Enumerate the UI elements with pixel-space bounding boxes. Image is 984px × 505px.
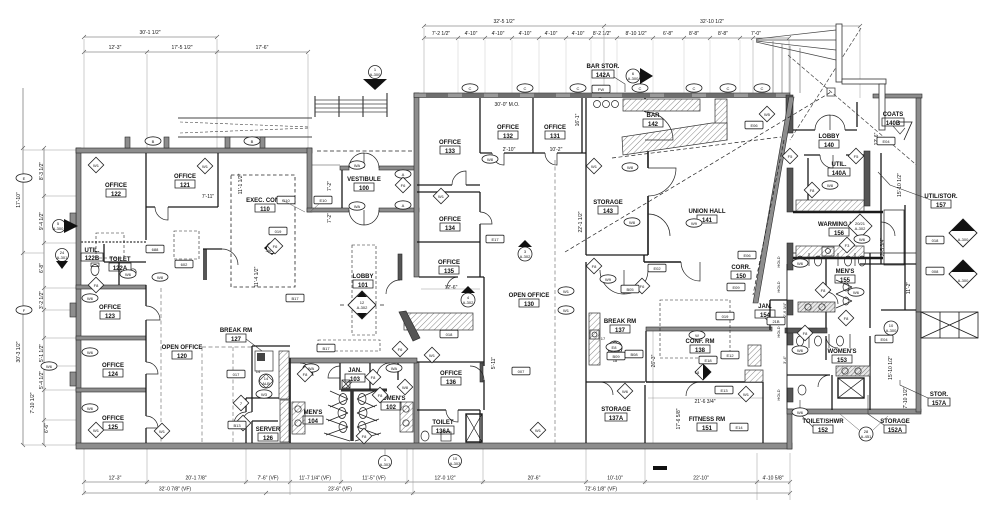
svg-text:MEN'S: MEN'S	[304, 410, 323, 416]
svg-text:W1: W1	[429, 353, 436, 358]
svg-text:OFFICE: OFFICE	[102, 416, 124, 422]
warming kit counter north	[796, 200, 864, 211]
svg-text:W6: W6	[859, 237, 866, 242]
room stor157A	[928, 392, 950, 407]
svg-text:OFFICE: OFFICE	[544, 125, 566, 131]
canopy dashed edge	[317, 150, 414, 152]
dim line top A	[424, 25, 604, 27]
toilet 136A fixtures	[421, 431, 429, 441]
svg-text:E04: E04	[882, 139, 890, 144]
wall vestibule west thin	[341, 170, 343, 208]
pilaster	[225, 137, 230, 148]
svg-text:11'-4 1/2": 11'-4 1/2"	[254, 266, 260, 287]
svg-text:131: 131	[550, 134, 561, 140]
svg-text:W6: W6	[622, 389, 629, 394]
room barstor142A	[587, 64, 620, 79]
wall coats west	[856, 102, 858, 127]
wall northeast corner chunk	[786, 95, 793, 133]
svg-text:019: 019	[275, 229, 282, 234]
wall office136 north	[417, 361, 484, 363]
room toilet122A	[109, 257, 131, 272]
svg-text:W1: W1	[438, 194, 445, 199]
wall warmingkit north	[793, 211, 883, 213]
svg-text:7'-2": 7'-2"	[327, 213, 333, 223]
svg-text:B08: B08	[630, 352, 638, 357]
room office125	[102, 416, 124, 431]
toilets womens153	[797, 336, 804, 346]
svg-text:W8: W8	[629, 220, 636, 225]
wall restroom block north (insulated)	[288, 358, 417, 363]
marker 10/A-300	[884, 321, 898, 335]
svg-text:F5: F5	[854, 154, 859, 159]
coat rod	[898, 122, 912, 140]
svg-text:124: 124	[108, 372, 119, 378]
svg-text:A-300: A-300	[53, 226, 64, 231]
svg-text:6'-8": 6'-8"	[663, 31, 673, 37]
svg-text:LOBBY: LOBBY	[353, 274, 374, 280]
svg-text:FITNESS RM: FITNESS RM	[689, 417, 725, 423]
wall office132/131	[532, 98, 534, 153]
svg-text:134: 134	[445, 226, 456, 232]
svg-text:138: 138	[695, 348, 706, 354]
svg-text:W1: W1	[743, 392, 750, 397]
pilaster	[125, 137, 130, 148]
wall menswomens divider dark	[785, 328, 827, 333]
svg-text:152: 152	[818, 428, 829, 434]
wall right exterior lower	[916, 312, 921, 412]
marker 23/A-302 warming	[848, 214, 872, 238]
svg-text:32'-5 1/2": 32'-5 1/2"	[493, 19, 514, 25]
svg-text:10'-10": 10'-10"	[607, 476, 623, 482]
wall office134 north	[417, 191, 480, 193]
svg-text:127: 127	[231, 337, 242, 343]
svg-text:17'-10": 17'-10"	[16, 192, 22, 208]
mens155 sink counter	[798, 302, 835, 312]
wall left exterior	[76, 148, 81, 445]
svg-text:COATS: COATS	[883, 112, 904, 118]
svg-text:130: 130	[524, 302, 535, 308]
svg-text:11'-1 1/2": 11'-1 1/2"	[238, 173, 244, 194]
room mens155	[835, 269, 855, 284]
marker 4/A-302	[461, 286, 475, 307]
svg-text:OFFICE: OFFICE	[438, 260, 460, 266]
room office134	[439, 217, 461, 232]
room openoffice120	[162, 345, 203, 360]
svg-text:F5: F5	[788, 154, 793, 159]
svg-text:11'-2": 11'-2"	[906, 282, 912, 295]
svg-text:120: 120	[177, 354, 188, 360]
svg-text:22'-1 1/2": 22'-1 1/2"	[578, 211, 584, 232]
svg-text:W8: W8	[827, 183, 834, 188]
wall deck horizontal	[842, 79, 886, 84]
svg-text:HOLD: HOLD	[776, 281, 781, 292]
svg-text:10'-2": 10'-2"	[550, 147, 563, 153]
leader barstor142A	[614, 77, 625, 92]
svg-text:21'-6 3/4": 21'-6 3/4"	[694, 399, 715, 405]
big diamond 5/A-300 east	[949, 260, 977, 288]
wall lobby101 east chunk	[398, 254, 402, 280]
wall office133/132	[479, 98, 481, 153]
svg-text:F6: F6	[273, 244, 278, 249]
svg-text:018: 018	[932, 238, 939, 243]
svg-text:BAR: BAR	[647, 113, 661, 119]
svg-text:18: 18	[695, 370, 700, 375]
door office131	[545, 153, 557, 165]
wall corr150 east	[825, 255, 827, 360]
svg-text:32'-10 1/2": 32'-10 1/2"	[700, 19, 724, 25]
wall offices123-125 east	[145, 285, 147, 443]
door office134	[480, 212, 492, 224]
deck dashed X diagonal 2	[790, 28, 861, 140]
svg-text:W6: W6	[87, 296, 94, 301]
wall office123 south	[76, 336, 146, 340]
svg-text:MEN'S: MEN'S	[836, 269, 855, 275]
grid ovals C row	[462, 84, 478, 92]
svg-text:122: 122	[111, 192, 122, 198]
door lobby140 entry pair	[815, 115, 845, 130]
room corr150	[731, 265, 751, 280]
svg-text:30'-3 1/2": 30'-3 1/2"	[16, 341, 22, 362]
wall office131 east	[581, 98, 583, 153]
deck rail fan NE	[756, 30, 836, 60]
svg-text:B13: B13	[233, 423, 241, 428]
dim line left outer	[22, 88, 24, 445]
svg-text:007: 007	[518, 369, 525, 374]
wall office136 east chunk	[480, 363, 483, 382]
room office135	[438, 260, 460, 275]
svg-text:E14: E14	[735, 425, 743, 430]
wall util140A west	[807, 158, 809, 206]
svg-text:A-300: A-300	[958, 278, 969, 283]
svg-text:4'-10": 4'-10"	[572, 31, 585, 37]
toilets mens104	[339, 394, 347, 405]
door unionhall west arcs	[648, 214, 670, 236]
breakrm137 sink	[590, 330, 599, 339]
svg-text:OFFICE: OFFICE	[102, 363, 124, 369]
svg-text:121: 121	[180, 183, 191, 189]
door office124	[146, 362, 158, 374]
svg-text:7'-2 1/2": 7'-2 1/2"	[432, 31, 451, 37]
svg-text:17'-6 5/8": 17'-6 5/8"	[676, 408, 682, 429]
lobby101 ramp hatch	[404, 313, 473, 330]
svg-text:688: 688	[152, 247, 159, 252]
door womens102	[377, 363, 390, 376]
elev marker 12/A-302	[340, 291, 384, 319]
svg-text:151: 151	[702, 426, 713, 432]
toilets mens155	[797, 256, 804, 266]
svg-text:WA: WA	[354, 163, 361, 168]
svg-text:W1: W1	[93, 163, 100, 168]
wall storage143 west	[585, 98, 587, 255]
openoffice130 dashed partition	[554, 160, 556, 443]
svg-text:102: 102	[386, 405, 397, 411]
door utilstor157	[881, 222, 895, 236]
breakrm137 counter	[589, 313, 600, 365]
dim line bottom row1	[84, 481, 790, 483]
room lobby101	[353, 274, 374, 289]
svg-text:018: 018	[446, 332, 453, 337]
svg-text:HOLD: HOLD	[776, 389, 781, 400]
wall toilet122A south	[76, 285, 146, 289]
room jan154	[755, 304, 775, 319]
svg-text:4'-10": 4'-10"	[492, 31, 505, 37]
room execconf110	[246, 198, 284, 213]
circled numbers bar	[594, 101, 619, 108]
svg-text:C: C	[727, 86, 730, 91]
grid ovals B top-left	[145, 137, 161, 145]
wall server/mens	[289, 358, 291, 443]
svg-text:C: C	[693, 86, 696, 91]
svg-text:E09: E09	[732, 285, 740, 290]
svg-text:11'-7 1/4" (VF): 11'-7 1/4" (VF)	[299, 476, 331, 482]
pilaster outside left wall	[70, 303, 76, 317]
svg-text:4'-10": 4'-10"	[519, 31, 532, 37]
svg-text:100: 100	[359, 186, 370, 192]
door office122	[155, 207, 168, 220]
wall main vertical artery upper	[414, 93, 419, 277]
svg-text:E02: E02	[653, 266, 661, 271]
svg-text:7'-6" (VF): 7'-6" (VF)	[257, 476, 278, 482]
room toiletshwr152	[802, 419, 844, 434]
wall offices134-136 east	[480, 192, 484, 443]
pilaster	[260, 137, 265, 148]
wall toilet122A partitions	[104, 244, 146, 285]
stall partitions mens155	[809, 253, 855, 266]
svg-text:B17: B17	[291, 296, 299, 301]
svg-text:6'-8": 6'-8"	[39, 263, 45, 273]
svg-text:8'-10 1/2": 8'-10 1/2"	[625, 31, 646, 37]
svg-text:9'-4 1/2": 9'-4 1/2"	[39, 212, 45, 231]
svg-text:156: 156	[834, 231, 845, 237]
svg-text:137: 137	[615, 328, 626, 334]
svg-text:B17: B17	[322, 346, 330, 351]
svg-text:JAN.: JAN.	[758, 304, 772, 310]
deck dashed X diagonal 1	[788, 55, 920, 168]
leader coats140B	[893, 126, 905, 134]
door execconf	[222, 249, 238, 265]
svg-text:E18: E18	[704, 358, 712, 363]
svg-text:F8: F8	[371, 375, 376, 380]
sink toilet122A	[130, 269, 136, 275]
svg-text:136A: 136A	[436, 429, 451, 435]
svg-text:143: 143	[603, 209, 614, 215]
svg-text:W6: W6	[797, 261, 804, 266]
wall fitness east	[762, 382, 764, 443]
svg-text:F6: F6	[398, 347, 403, 352]
room util122B	[81, 248, 103, 262]
svg-text:5'-4 1/2": 5'-4 1/2"	[39, 371, 45, 390]
door storage143 north leaf	[645, 112, 673, 140]
marker 15/A-301 break	[601, 336, 622, 363]
door office135	[447, 277, 458, 288]
wall utilstor inner	[881, 205, 916, 310]
interior dims	[202, 94, 912, 430]
wall lobby140 south	[793, 130, 864, 155]
marker 3/A-302	[518, 240, 532, 261]
svg-text:12'-0 1/2": 12'-0 1/2"	[434, 476, 455, 482]
svg-text:E04: E04	[880, 337, 888, 342]
door corr-openoffice pair	[600, 270, 648, 294]
svg-text:ALB: ALB	[262, 381, 270, 386]
breakrm127 counter	[279, 351, 289, 399]
svg-text:15'-10 1/2": 15'-10 1/2"	[897, 173, 903, 197]
svg-text:A: A	[402, 172, 405, 177]
svg-text:4'-10 5/8": 4'-10 5/8"	[762, 476, 783, 482]
room office122	[105, 183, 127, 198]
svg-text:A-302: A-302	[855, 226, 866, 231]
stall partitions mens104	[324, 391, 350, 441]
room coats140B	[882, 112, 904, 127]
svg-text:W1: W1	[202, 164, 209, 169]
wall right exterior upper	[916, 98, 921, 312]
svg-text:E: E	[23, 176, 26, 181]
wall storage143 south	[586, 254, 648, 256]
svg-text:6'-6": 6'-6"	[44, 423, 50, 433]
svg-text:BREAK RM: BREAK RM	[220, 328, 252, 334]
svg-text:UNION HALL: UNION HALL	[689, 209, 726, 215]
execconf future room dashed	[231, 175, 295, 287]
svg-text:157: 157	[936, 203, 947, 209]
svg-text:12'-6": 12'-6"	[445, 285, 458, 291]
door office125	[146, 416, 158, 428]
wall conf rm north gray	[646, 327, 772, 331]
svg-text:4'-10": 4'-10"	[465, 31, 478, 37]
pilaster	[164, 137, 169, 148]
svg-text:123: 123	[105, 314, 116, 320]
svg-text:602: 602	[181, 262, 188, 267]
marker 14/ALB PANT	[256, 369, 273, 388]
lobby101 furniture dashed	[352, 245, 376, 335]
svg-text:150: 150	[736, 274, 747, 280]
door lobby101 east	[386, 280, 400, 294]
svg-text:CORR.: CORR.	[731, 265, 751, 271]
leader toiletshwr152	[800, 400, 813, 427]
svg-text:BAR STOR.: BAR STOR.	[587, 64, 620, 70]
svg-text:21B: 21B	[772, 319, 779, 324]
restroom core wall dark	[341, 389, 387, 392]
room office124	[102, 363, 124, 378]
svg-text:TOILET/SHWR: TOILET/SHWR	[802, 419, 844, 425]
shower storage152A	[838, 378, 864, 398]
door breakrm127	[243, 412, 252, 421]
svg-text:104: 104	[308, 419, 319, 425]
keynote boxes	[277, 196, 295, 204]
bar counter lower angled band	[622, 123, 727, 155]
room breakrm137	[604, 319, 636, 334]
leader marker lines	[282, 200, 319, 212]
openoffice120 dashed table	[318, 340, 380, 351]
svg-text:W3: W3	[261, 392, 268, 397]
svg-text:11'-5" (VF): 11'-5" (VF)	[362, 476, 386, 482]
svg-text:STORAGE: STORAGE	[601, 407, 631, 413]
svg-text:W6: W6	[853, 290, 860, 295]
wall office135 south	[419, 276, 484, 278]
svg-text:W1: W1	[563, 308, 570, 313]
svg-text:STORAGE: STORAGE	[593, 200, 623, 206]
room office121	[174, 174, 196, 189]
ramp edges	[178, 118, 312, 137]
room mens104	[303, 410, 323, 425]
svg-text:WOMEN'S: WOMEN'S	[827, 349, 856, 355]
wall breakrm127	[252, 346, 290, 443]
wall restrooms east strip	[860, 253, 916, 410]
svg-text:E06: E06	[743, 253, 751, 258]
dim line top B	[604, 25, 860, 27]
server126 rack hatch	[280, 400, 289, 442]
svg-text:E06: E06	[750, 123, 758, 128]
svg-text:C: C	[469, 86, 472, 91]
svg-text:C: C	[577, 86, 580, 91]
mens104 sink counter	[292, 402, 305, 434]
walk edge to vestibule	[312, 93, 387, 165]
svg-text:F8: F8	[821, 288, 826, 293]
leader jan154	[765, 318, 772, 325]
svg-text:W1: W1	[159, 429, 166, 434]
section marker 5/A-300 left	[53, 219, 79, 233]
office121 furniture dashed	[174, 231, 199, 259]
wall utilstor west	[880, 153, 882, 264]
door vestibule south pair	[349, 210, 379, 225]
svg-text:F3: F3	[845, 243, 850, 248]
svg-text:BREAK RM: BREAK RM	[604, 319, 636, 325]
svg-text:F8: F8	[803, 331, 808, 336]
door server126	[234, 412, 246, 424]
svg-text:7'-10 1/2": 7'-10 1/2"	[30, 392, 36, 413]
room office131	[544, 125, 566, 140]
marker 28/A-451	[840, 414, 888, 441]
svg-text:3'-4": 3'-4"	[782, 355, 787, 364]
svg-text:OFFICE: OFFICE	[99, 305, 121, 311]
extension lines bottom	[84, 449, 790, 500]
railing posts	[315, 93, 387, 117]
jan mop sink	[342, 380, 350, 388]
pilaster outside left wall	[70, 372, 76, 386]
room openoffice130	[509, 293, 550, 308]
section marker 4/A-301 left	[56, 249, 69, 270]
door unionhall south	[681, 262, 700, 281]
room unionhall141	[689, 209, 726, 224]
room jan103	[345, 368, 365, 383]
svg-text:W6: W6	[797, 348, 804, 353]
urinals mens155	[836, 280, 852, 308]
svg-text:8'-2 1/2": 8'-2 1/2"	[593, 31, 612, 37]
extension lines top	[84, 28, 860, 150]
door mens155	[826, 292, 838, 304]
svg-text:JAN.: JAN.	[348, 368, 362, 374]
svg-text:OFFICE: OFFICE	[497, 125, 519, 131]
svg-text:5'-1 1/2": 5'-1 1/2"	[39, 344, 45, 363]
svg-text:A-451: A-451	[861, 434, 872, 439]
wall mens155 region	[793, 252, 916, 254]
svg-text:132: 132	[503, 134, 514, 140]
svg-text:F8: F8	[362, 434, 367, 439]
womens153 sink counter	[836, 366, 870, 376]
svg-text:017: 017	[233, 372, 240, 377]
svg-text:153: 153	[837, 358, 848, 364]
svg-text:F8: F8	[378, 393, 383, 398]
svg-text:OPEN OFFICE: OPEN OFFICE	[509, 293, 550, 299]
ovals plan misc	[349, 161, 365, 169]
svg-text:W8: W8	[627, 165, 634, 170]
door mens104	[300, 363, 313, 376]
deck brace center plate	[827, 88, 835, 96]
wall main vertical artery lower	[414, 362, 419, 445]
bar counter right band	[715, 99, 727, 140]
openoffice120 dashed partition	[161, 288, 252, 443]
svg-text:12'-3": 12'-3"	[109, 476, 122, 482]
svg-text:STOR.: STOR.	[930, 392, 949, 398]
door womens153	[826, 336, 838, 348]
